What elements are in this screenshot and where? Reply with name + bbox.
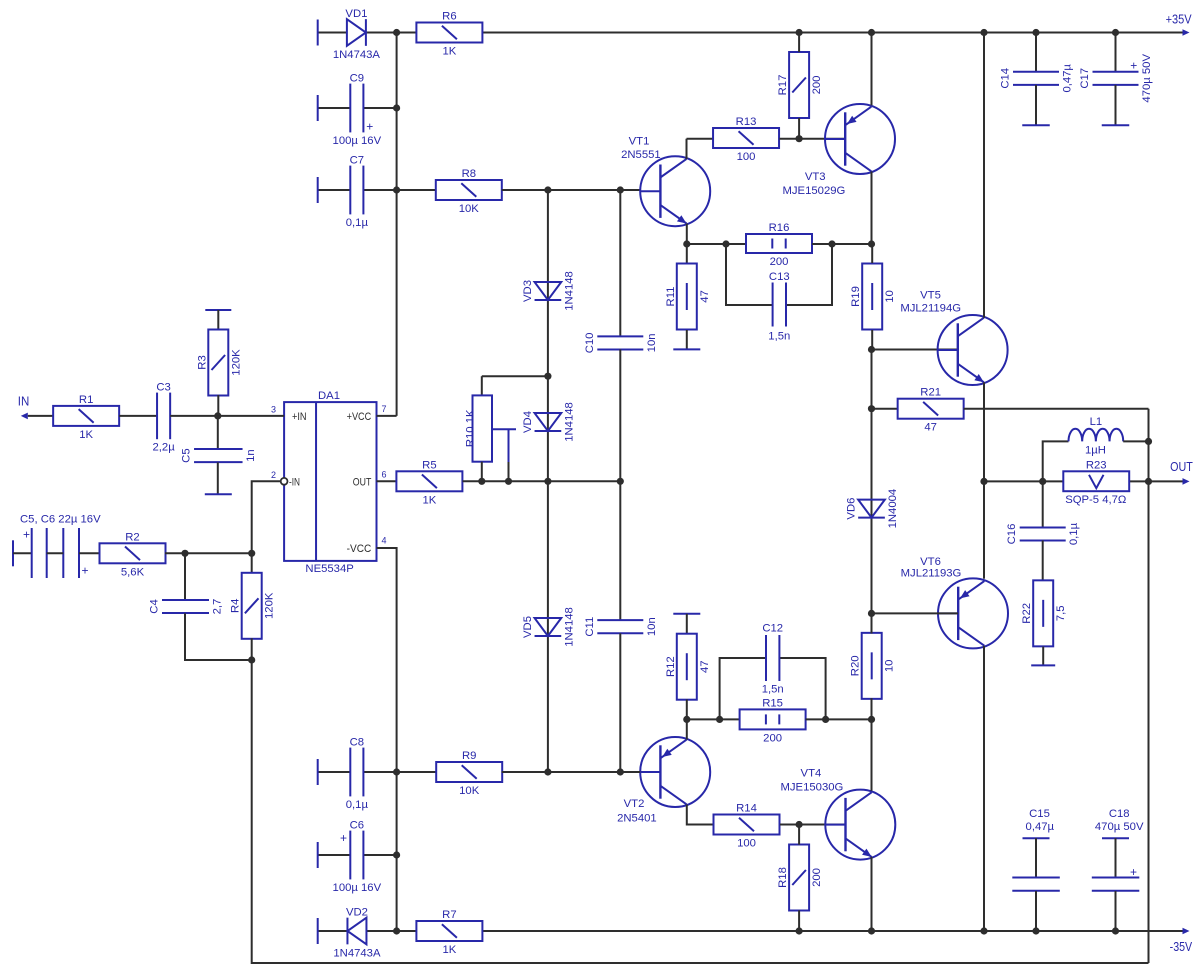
junction R15/C12 right: [822, 716, 829, 723]
junction VD4/VD5/bias row: [544, 478, 551, 485]
svg-text:7,5: 7,5: [1055, 605, 1067, 621]
svg-text:2,7: 2,7: [212, 599, 224, 615]
svg-text:2: 2: [271, 470, 276, 480]
svg-text:R8: R8: [462, 168, 476, 180]
wire C6 to R2: [79, 552, 100, 554]
svg-text:47: 47: [924, 422, 937, 434]
svg-text:100µ 16V: 100µ 16V: [333, 882, 382, 894]
svg-text:0,1µ: 0,1µ: [1068, 522, 1080, 545]
wire R8 to VT1 base: [502, 189, 640, 191]
wire C6 right lead: [363, 854, 396, 856]
capacitor C7: [346, 155, 369, 229]
wire terminal to C5: [13, 552, 32, 554]
svg-text:R13: R13: [736, 116, 757, 128]
wire VD1 cathode to R6: [367, 32, 417, 34]
junction C4 top: [181, 550, 188, 557]
junction R16/C13 left: [722, 240, 729, 247]
svg-text:C9: C9: [350, 73, 364, 85]
svg-text:MJL21194G: MJL21194G: [900, 303, 961, 315]
junction C10/C11 bias row: [617, 478, 624, 485]
svg-text:10: 10: [884, 660, 896, 673]
wire to VT5 base: [872, 349, 958, 351]
arrow IN: [21, 413, 28, 420]
svg-text:-35V: -35V: [1170, 939, 1193, 954]
capacitor C9: [333, 73, 382, 147]
transistor VT4: [781, 767, 896, 859]
resistor R6: [416, 11, 482, 58]
resistor R17: [777, 52, 823, 118]
arrow +35V: [1183, 29, 1190, 36]
svg-text:R23: R23: [1086, 459, 1107, 471]
svg-text:VT2: VT2: [624, 798, 645, 810]
capacitor C15: [1012, 808, 1060, 891]
svg-text:R14: R14: [736, 803, 757, 815]
resistor R1: [53, 394, 119, 441]
svg-text:+IN: +IN: [292, 411, 307, 423]
wire R22 bottom lead: [1042, 647, 1044, 665]
transistor VT6: [901, 556, 1008, 648]
wire R2 to feedback node: [165, 552, 252, 554]
wire C18 bottom lead: [1115, 891, 1117, 931]
svg-text:47: 47: [699, 290, 711, 303]
wire R20 top lead: [871, 613, 873, 633]
wire R17 top lead: [798, 33, 800, 53]
junction rail/C14: [1032, 29, 1039, 36]
svg-text:C4: C4: [149, 599, 161, 613]
svg-text:R21: R21: [920, 387, 941, 399]
wire C8 right lead: [363, 771, 396, 773]
wire IN to R1: [28, 415, 53, 417]
resistor R8: [436, 168, 502, 215]
wire R15 to R20: [806, 718, 872, 720]
svg-text:+: +: [1130, 865, 1137, 879]
svg-text:VD4: VD4: [522, 411, 534, 433]
capacitor C14: [1000, 64, 1074, 93]
junction C11/R9 row: [617, 768, 624, 775]
junction C9/+VCC column: [393, 104, 400, 111]
terminal C5 C6 input: [12, 540, 14, 566]
wire R14 to VT4 base: [780, 824, 845, 826]
wire VD2 anode to rail: [367, 930, 417, 932]
svg-text:C17: C17: [1079, 68, 1091, 89]
wire OUT row right: [1129, 480, 1183, 482]
transistor VT5: [900, 289, 1007, 385]
terminal C17 bottom: [1102, 124, 1130, 126]
wire VD1 anode lead: [318, 32, 347, 34]
junction rail/C17: [1112, 29, 1119, 36]
svg-text:VD6: VD6: [846, 498, 858, 520]
resistor R7: [416, 909, 482, 956]
wire C5-C6 mid: [47, 552, 64, 554]
wire C7 left lead: [318, 189, 351, 191]
junction R10 bottom: [478, 478, 485, 485]
svg-text:6: 6: [382, 470, 387, 480]
wire right feedback column: [1148, 409, 1150, 963]
wire VT1 emitter lead: [686, 224, 688, 264]
wire C18 top lead: [1115, 838, 1117, 877]
wire C15 top lead: [1035, 838, 1037, 877]
svg-text:R12: R12: [665, 656, 677, 677]
svg-text:10n: 10n: [646, 333, 658, 352]
wire C13 right branch: [786, 244, 832, 305]
wire VT4 collector lead: [871, 719, 873, 790]
wire bias diode string: [547, 190, 549, 772]
svg-text:R16: R16: [769, 222, 790, 234]
resistor R14: [714, 803, 780, 850]
junction C10 column top: [617, 186, 624, 193]
wire VT2 collector to R14: [687, 805, 713, 825]
svg-text:0,47µ: 0,47µ: [1026, 821, 1055, 833]
svg-text:C11: C11: [584, 617, 596, 637]
wire VT3 emitter to rail: [871, 33, 873, 106]
wire C12 right branch: [779, 658, 825, 719]
wire R18 bottom lead: [798, 910, 800, 931]
wire OUT row left: [984, 480, 1063, 482]
svg-text:+VCC: +VCC: [347, 411, 372, 423]
terminal R3 top: [205, 309, 231, 311]
junction VT5/VT6/OUT: [980, 478, 987, 485]
capacitor C12: [762, 623, 784, 696]
svg-text:OUT: OUT: [353, 476, 372, 488]
svg-text:OUT: OUT: [1170, 459, 1193, 474]
svg-text:120K: 120K: [264, 592, 276, 619]
diode VD6: [846, 489, 899, 529]
svg-text:1N4004: 1N4004: [887, 489, 899, 529]
svg-text:1N4148: 1N4148: [563, 271, 575, 311]
wire C4 top lead: [184, 553, 186, 600]
svg-text:5,6K: 5,6K: [121, 566, 145, 578]
svg-text:C5: C5: [181, 448, 193, 462]
svg-text:C15: C15: [1029, 808, 1050, 820]
svg-text:200: 200: [763, 732, 782, 744]
svg-text:C5, C6 22µ 16V: C5, C6 22µ 16V: [20, 514, 101, 526]
wire R21 to right column: [964, 408, 1149, 410]
wire C4 bottom to R4 bottom: [185, 613, 252, 660]
junction rail/C15: [1032, 927, 1039, 934]
svg-text:0,47µ: 0,47µ: [1062, 64, 1074, 93]
svg-text:R10 1K: R10 1K: [465, 409, 477, 447]
svg-text:7: 7: [382, 404, 387, 414]
capacitor C3: [152, 382, 175, 454]
svg-text:DA1: DA1: [318, 390, 340, 402]
terminal R22 bottom: [1031, 664, 1055, 666]
svg-text:C3: C3: [156, 382, 170, 394]
junction R4/C4/feedback: [248, 656, 255, 663]
svg-text:1,5n: 1,5n: [762, 684, 784, 696]
svg-text:VD1: VD1: [345, 8, 367, 20]
svg-text:1µH: 1µH: [1085, 445, 1106, 457]
svg-text:4: 4: [382, 536, 387, 546]
svg-text:VD5: VD5: [522, 616, 534, 638]
inductor L1: [1069, 416, 1124, 457]
svg-text:10: 10: [884, 290, 896, 303]
wire C3 to DA1 +IN: [170, 415, 284, 417]
junction diode string top: [544, 186, 551, 193]
wire R4 bottom lead: [251, 638, 253, 660]
wire R13 to VT3 base: [779, 138, 845, 140]
svg-text:10n: 10n: [646, 617, 658, 636]
wire R19 bottom lead: [871, 330, 873, 350]
wire R18 top lead: [798, 825, 800, 845]
resistor R5: [396, 459, 462, 506]
svg-text:C8: C8: [350, 737, 364, 749]
svg-text:VD2: VD2: [346, 907, 368, 919]
junction VT2 emitter/R12: [683, 716, 690, 723]
wire bases link upper: [871, 350, 873, 409]
capacitor C10: [584, 333, 658, 354]
svg-text:C6: C6: [350, 820, 364, 832]
terminal C5 bottom: [205, 493, 232, 495]
capacitor C17: [1079, 54, 1153, 103]
junction R3/C5/+IN: [214, 412, 221, 419]
svg-text:R2: R2: [125, 531, 139, 543]
wire R12 bottom lead: [686, 699, 688, 719]
svg-text:1K: 1K: [79, 429, 93, 441]
transistor VT1: [621, 135, 710, 226]
terminal R11 bottom: [673, 348, 700, 350]
DA1 inverting input circle: [281, 478, 288, 485]
wire VD6 column: [871, 409, 873, 614]
svg-text:200: 200: [811, 868, 823, 887]
wire R10 bottom lead: [481, 462, 483, 482]
wire L1 left lead: [1043, 441, 1069, 481]
wire feedback bottom line: [252, 660, 1149, 963]
wire VT1 collector lead: [686, 139, 688, 159]
wire R9 left lead: [397, 771, 437, 773]
wire C16 to R22: [1042, 541, 1044, 581]
wire R8 left lead: [397, 189, 436, 191]
capacitor C18: [1092, 808, 1144, 891]
junction rail/R18: [796, 927, 803, 934]
junction R13/R17/VT3 base: [796, 135, 803, 142]
resistor R12: [665, 634, 711, 700]
wire DA1 -VCC pin 4 to -35V column: [377, 548, 397, 931]
svg-text:R1: R1: [79, 394, 93, 406]
svg-text:C16: C16: [1006, 524, 1018, 545]
junction R2/R4/-IN: [248, 550, 255, 557]
svg-text:R22: R22: [1021, 603, 1033, 624]
resistor R22: [1021, 580, 1067, 646]
wire C5 top lead: [217, 416, 219, 449]
wire R9 to VT2 base: [502, 771, 641, 773]
wire VT6 base: [872, 612, 959, 614]
junction rail/C18: [1112, 927, 1119, 934]
svg-text:VD3: VD3: [522, 280, 534, 302]
wire C6 left lead: [318, 854, 351, 856]
svg-text:10K: 10K: [459, 203, 480, 215]
svg-text:+: +: [1130, 58, 1137, 72]
trimmer R10: [465, 395, 516, 462]
junction rail/VT6 collector: [980, 927, 987, 934]
svg-text:C10: C10: [584, 333, 596, 354]
terminal VD1 input: [317, 20, 319, 46]
resistor R23: [1063, 459, 1129, 506]
svg-text:IN: IN: [18, 394, 30, 409]
arrow OUT: [1183, 478, 1190, 485]
wire C13 left branch: [726, 244, 773, 305]
svg-text:200: 200: [811, 76, 823, 95]
svg-text:R7: R7: [442, 909, 456, 921]
svg-text:C13: C13: [769, 271, 790, 283]
terminal C9: [317, 95, 319, 121]
capacitor C5 C6 series pair: [20, 514, 101, 579]
op-amp DA1: [271, 390, 387, 575]
wire C15 bottom lead: [1035, 891, 1037, 931]
svg-text:SQP-5 4,7Ω: SQP-5 4,7Ω: [1065, 494, 1126, 506]
diode VD5: [522, 607, 575, 647]
svg-text:470µ 50V: 470µ 50V: [1141, 54, 1153, 103]
svg-text:C12: C12: [762, 623, 783, 635]
wire R10 top lead: [481, 376, 483, 395]
resistor R11: [665, 264, 711, 330]
wire R17 bottom lead: [798, 118, 800, 139]
junction C8/R9 row: [393, 768, 400, 775]
terminal C14 bottom: [1022, 124, 1050, 126]
junction C7/R8 row: [393, 186, 400, 193]
wire C10-C11: [619, 349, 621, 620]
junction rail/VT4 emitter: [868, 927, 875, 934]
svg-text:VT4: VT4: [801, 767, 822, 779]
svg-text:1N4743A: 1N4743A: [333, 947, 381, 959]
wire C5 bottom lead: [217, 462, 219, 494]
wire +VCC column: [396, 33, 398, 416]
resistor R18: [777, 845, 823, 911]
wire DA1 OUT pin 6: [377, 480, 397, 482]
svg-text:1N4148: 1N4148: [563, 402, 575, 442]
svg-text:2N5551: 2N5551: [621, 149, 661, 161]
diode VD2: [333, 907, 381, 960]
wire C9 left lead: [318, 107, 351, 109]
resistor R13: [713, 116, 779, 163]
transistor VT2: [617, 737, 710, 825]
junction rail/VT3 emitter: [868, 29, 875, 36]
svg-text:L1: L1: [1090, 416, 1103, 428]
svg-text:VT6: VT6: [920, 556, 941, 568]
terminal R12 top: [673, 613, 700, 615]
wire C17 top lead: [1115, 33, 1117, 72]
wire VT5 collector to rail: [983, 33, 985, 318]
terminal C8: [317, 759, 319, 785]
svg-text:2N5401: 2N5401: [617, 813, 657, 825]
wire VT6 emitter to OUT node: [983, 481, 985, 578]
resistor R2: [100, 531, 166, 578]
junction R10 wiper: [505, 478, 512, 485]
svg-text:47: 47: [699, 660, 711, 673]
junction OUT/feedback column: [1145, 478, 1152, 485]
junction VD5/R9 row: [544, 768, 551, 775]
capacitor C13: [768, 271, 790, 343]
wire VT2 emitter lead: [686, 719, 688, 739]
capacitor C6: [333, 820, 382, 894]
capacitor C11: [584, 617, 658, 637]
wire DA1 -IN to R2/R4 node: [252, 481, 281, 553]
junction VT1 emitter/R16: [683, 240, 690, 247]
wire R12 top lead: [686, 614, 688, 634]
terminal C6: [317, 842, 319, 868]
svg-text:MJE15030G: MJE15030G: [781, 781, 844, 793]
resistor R16: [746, 222, 812, 268]
junction rail/R17: [796, 29, 803, 36]
wire C7 right lead: [363, 189, 396, 191]
junction R15/C12 left: [716, 716, 723, 723]
wire VT1 collector to R13: [687, 138, 713, 140]
svg-text:R6: R6: [442, 11, 456, 23]
wire C11 bottom: [619, 633, 621, 772]
svg-text:+: +: [340, 831, 347, 845]
svg-text:0,1µ: 0,1µ: [346, 799, 369, 811]
arrow -35V: [1183, 928, 1190, 935]
junction VT3 collector/R19: [868, 240, 875, 247]
wire C9 right lead: [363, 107, 396, 109]
svg-text:100µ 16V: 100µ 16V: [333, 135, 382, 147]
terminal VD2: [317, 918, 319, 944]
wire VT4 emitter to rail: [871, 857, 873, 931]
wire R16 to VT3 collector node: [812, 243, 872, 245]
svg-text:MJE15029G: MJE15029G: [783, 185, 846, 197]
svg-text:R3: R3: [196, 355, 208, 369]
svg-text:1,5n: 1,5n: [768, 331, 790, 343]
svg-text:1K: 1K: [422, 494, 436, 506]
wire R11 bottom lead: [686, 330, 688, 349]
svg-text:100: 100: [737, 838, 756, 850]
svg-text:+: +: [23, 528, 30, 542]
transistor VT3: [783, 104, 895, 197]
terminal C18 top: [1102, 837, 1129, 839]
terminal C7: [317, 177, 319, 203]
wire C14 top lead: [1035, 33, 1037, 72]
svg-text:1N4148: 1N4148: [563, 607, 575, 647]
capacitor C5: [181, 448, 257, 462]
wire R10 wiper lead: [508, 462, 510, 481]
junction VD3/VD4/R10: [544, 373, 551, 380]
junction L1 branch/C16: [1039, 478, 1046, 485]
wire VT6 collector to -35V rail: [983, 646, 985, 931]
svg-text:+: +: [366, 120, 373, 134]
wire R10 top to diode string: [482, 375, 548, 377]
capacitor C4: [149, 599, 224, 615]
svg-text:R4: R4: [230, 599, 242, 613]
wire VD2 cathode lead: [318, 930, 347, 932]
resistor R21: [898, 387, 964, 434]
wire DA1 +VCC pin 7: [377, 415, 397, 417]
svg-text:470µ 50V: 470µ 50V: [1095, 821, 1144, 833]
wire C14 bottom lead: [1035, 85, 1037, 125]
capacitor C16: [1006, 522, 1080, 545]
wire C17 bottom lead: [1115, 85, 1117, 125]
diode VD1: [333, 8, 381, 61]
svg-text:C18: C18: [1109, 808, 1130, 820]
capacitor C8: [346, 737, 369, 811]
svg-text:0,1µ: 0,1µ: [346, 217, 369, 229]
svg-text:NE5534P: NE5534P: [305, 563, 353, 575]
resistor R19: [850, 264, 896, 330]
svg-text:VT5: VT5: [920, 289, 941, 301]
svg-text:-IN: -IN: [289, 476, 300, 488]
wire node to R16: [687, 243, 746, 245]
svg-text:1n: 1n: [245, 449, 257, 462]
wire R4 top lead: [251, 553, 253, 573]
wire C8 left lead: [318, 771, 351, 773]
junction R19/VT5 base: [868, 346, 875, 353]
svg-text:1K: 1K: [442, 944, 456, 956]
svg-text:2,2µ: 2,2µ: [152, 442, 175, 454]
svg-text:R5: R5: [422, 459, 436, 471]
svg-text:R17: R17: [777, 75, 789, 96]
svg-text:R20: R20: [850, 655, 862, 676]
svg-text:R15: R15: [762, 697, 783, 709]
svg-text:R11: R11: [665, 287, 677, 307]
wire bias row: [463, 480, 621, 482]
